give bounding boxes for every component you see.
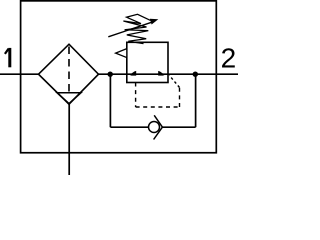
wire: port 2 outlet line — [168, 73, 238, 75]
wire: port 1 inlet line — [0, 73, 39, 75]
wire: bypass bottom right — [162, 126, 196, 128]
regulator R1 body (square) — [127, 42, 168, 82]
filter F1 body (diamond) — [39, 44, 99, 104]
pilot line: bottom horizontal (dashed) — [136, 106, 180, 108]
relief vent triangle — [116, 49, 127, 58]
flow arrowhead left inside regulator — [130, 71, 137, 76]
port label 1 — [5, 48, 11, 67]
pilot line: right vertical (dashed) — [179, 88, 181, 108]
wire: bypass left vertical — [109, 74, 111, 127]
pilot line: diagonal tap (dashed) — [169, 75, 179, 87]
wire: filter to regulator line — [98, 73, 127, 75]
filter element (dashed center line) — [68, 47, 70, 93]
adjustment arrow shaft — [108, 22, 151, 37]
adjustment arrowhead — [150, 19, 159, 25]
enclosure box (service unit frame) — [21, 1, 217, 153]
pilot line: vertical under diaphragm (dashed) — [135, 83, 137, 108]
wire: bypass bottom left — [110, 126, 148, 128]
water separator triangle — [57, 93, 81, 104]
wire: condensate drain line — [68, 104, 70, 175]
node: junction downstream of regulator — [193, 72, 198, 77]
wire: bypass right vertical — [195, 74, 197, 127]
svg-text:2: 2 — [221, 42, 237, 73]
check valve V1 ball — [149, 122, 160, 133]
flow arrowhead right inside regulator — [158, 71, 165, 76]
wire: regulator flow path — [127, 73, 168, 75]
spring (zigzag) — [123, 14, 150, 43]
node: junction upstream of regulator — [108, 72, 113, 77]
check valve V1 seat — [154, 115, 163, 139]
